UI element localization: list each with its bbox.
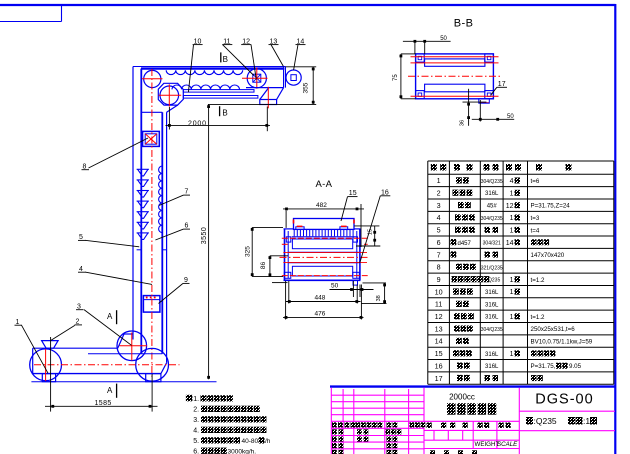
svg-text:3.: 3. xyxy=(193,417,199,424)
svg-text:316L: 316L xyxy=(485,302,499,308)
svg-text:5.: 5. xyxy=(193,438,199,445)
svg-text:11: 11 xyxy=(435,300,442,309)
svg-text:/h: /h xyxy=(265,438,271,445)
svg-text:316L: 316L xyxy=(485,191,499,197)
svg-text:482: 482 xyxy=(316,202,327,209)
svg-text:1: 1 xyxy=(510,215,514,222)
svg-text:t=4: t=4 xyxy=(531,227,540,234)
svg-text:304/Q235: 304/Q235 xyxy=(481,179,503,185)
svg-text:5: 5 xyxy=(437,226,441,235)
svg-text:10: 10 xyxy=(435,287,443,296)
svg-text:13: 13 xyxy=(435,324,443,333)
svg-text:50: 50 xyxy=(440,36,447,42)
svg-text:6: 6 xyxy=(437,238,441,247)
svg-text:B-B: B-B xyxy=(454,18,474,30)
svg-text:15: 15 xyxy=(367,229,373,235)
svg-text:1: 1 xyxy=(437,176,441,185)
svg-text:9.05: 9.05 xyxy=(569,363,582,370)
svg-text:3550: 3550 xyxy=(201,227,208,245)
svg-text:d457: d457 xyxy=(458,241,472,247)
svg-text:325: 325 xyxy=(245,246,252,257)
svg-text:BV10,0.75/1.1kw,J=59: BV10,0.75/1.1kw,J=59 xyxy=(531,339,593,346)
svg-text:15: 15 xyxy=(349,190,357,197)
svg-text:4.: 4. xyxy=(193,428,199,435)
svg-text:1: 1 xyxy=(510,190,514,197)
svg-text:3000kg/h.: 3000kg/h. xyxy=(228,448,257,454)
svg-text:250x25x531,t=6: 250x25x531,t=6 xyxy=(531,326,576,333)
svg-text:45#: 45# xyxy=(487,204,498,210)
svg-text:476: 476 xyxy=(315,311,326,318)
svg-text:P=31.75,: P=31.75, xyxy=(531,363,556,370)
svg-text:316L: 316L xyxy=(485,290,499,296)
svg-text:1: 1 xyxy=(510,351,514,358)
svg-text:2000cc: 2000cc xyxy=(449,393,475,402)
svg-text:8: 8 xyxy=(437,263,441,272)
svg-text:50: 50 xyxy=(331,282,339,289)
svg-text:7: 7 xyxy=(437,250,441,259)
svg-text:B: B xyxy=(223,55,228,64)
svg-text:75: 75 xyxy=(393,74,399,81)
svg-text:WEIGHT: WEIGHT xyxy=(475,441,500,448)
svg-text:6: 6 xyxy=(185,223,189,230)
svg-text:448: 448 xyxy=(315,295,326,302)
svg-text:4: 4 xyxy=(510,178,514,185)
svg-text:A: A xyxy=(107,386,113,395)
svg-text:38: 38 xyxy=(376,295,382,301)
svg-text:316L: 316L xyxy=(485,364,499,370)
svg-text:321/Q235: 321/Q235 xyxy=(481,265,503,271)
svg-text:147x70x420: 147x70x420 xyxy=(531,252,565,259)
svg-text:DGS-00: DGS-00 xyxy=(535,391,593,407)
svg-text:A: A xyxy=(107,312,113,321)
svg-text:1: 1 xyxy=(510,227,514,234)
svg-text:50: 50 xyxy=(507,114,514,120)
svg-text:1585: 1585 xyxy=(95,400,112,407)
svg-text:316L: 316L xyxy=(485,352,499,358)
svg-text:P=31.75,Z=24: P=31.75,Z=24 xyxy=(531,203,571,210)
svg-text:355: 355 xyxy=(303,82,310,93)
svg-text:t=3: t=3 xyxy=(531,215,540,222)
svg-text:B: B xyxy=(222,109,227,118)
svg-text::1: :1 xyxy=(583,416,590,426)
svg-text:6.: 6. xyxy=(193,448,199,454)
svg-text:2000: 2000 xyxy=(188,120,207,127)
svg-text:304/Q235: 304/Q235 xyxy=(481,216,503,222)
svg-text:12: 12 xyxy=(435,312,443,321)
svg-text:304/Q235: 304/Q235 xyxy=(481,327,503,333)
svg-text:304/321: 304/321 xyxy=(483,241,501,247)
svg-text:86: 86 xyxy=(260,262,267,270)
svg-text:14: 14 xyxy=(435,337,443,346)
svg-text:12: 12 xyxy=(506,203,514,210)
svg-text:2: 2 xyxy=(437,189,441,198)
svg-text:t=1.2: t=1.2 xyxy=(531,314,545,321)
svg-text:7: 7 xyxy=(185,189,189,196)
svg-text:1.: 1. xyxy=(193,396,199,403)
svg-text:40-80: 40-80 xyxy=(242,438,259,445)
svg-text:2.: 2. xyxy=(193,407,199,414)
svg-text:17: 17 xyxy=(435,374,443,383)
svg-text:15: 15 xyxy=(435,349,443,358)
svg-text:14: 14 xyxy=(506,240,514,247)
svg-text:t=6: t=6 xyxy=(531,178,540,185)
svg-text:Q235: Q235 xyxy=(488,278,500,284)
svg-text:4: 4 xyxy=(437,213,441,222)
svg-text:SCALE: SCALE xyxy=(497,441,518,448)
svg-text:3: 3 xyxy=(437,201,441,210)
svg-text:t=1.2: t=1.2 xyxy=(531,277,545,284)
svg-text:A-A: A-A xyxy=(316,179,333,190)
svg-text:9: 9 xyxy=(437,275,441,284)
svg-text:36: 36 xyxy=(460,120,466,126)
svg-text:1: 1 xyxy=(510,277,514,284)
svg-text:316L: 316L xyxy=(485,315,499,321)
svg-text::Q235: :Q235 xyxy=(534,416,557,426)
svg-text:1: 1 xyxy=(510,289,514,296)
svg-text:1: 1 xyxy=(510,314,514,321)
svg-text:16: 16 xyxy=(435,361,443,370)
